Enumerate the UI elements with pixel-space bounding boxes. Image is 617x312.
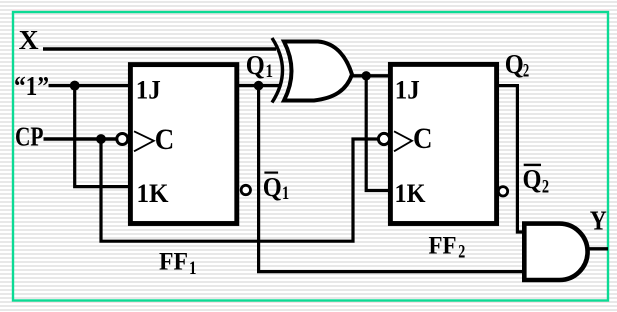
wire X input: [43, 47, 276, 50]
svg-text:Q: Q: [263, 171, 282, 202]
svg-text:Q: Q: [246, 49, 265, 80]
svg-text:C: C: [413, 123, 433, 155]
svg-text:1: 1: [266, 61, 274, 82]
junction dot node XOR output: [362, 71, 371, 80]
XOR gate extra input arc: [272, 38, 283, 103]
FF2 clock triangle: [394, 131, 412, 151]
wire XOR output branch down to 1K of FF2: [366, 76, 390, 191]
FF1 clock triangle: [134, 131, 154, 151]
svg-text:1J: 1J: [136, 76, 161, 105]
svg-text:1: 1: [282, 183, 289, 204]
svg-text:Y: Y: [590, 205, 607, 236]
svg-text:Q: Q: [505, 48, 524, 79]
pink ruled line top: [12, 9, 609, 10]
XOR gate body: [284, 42, 352, 101]
flip-flop FF2 box: [390, 64, 496, 223]
FF1 clock bubble: [117, 134, 128, 145]
wire Q2 output down to AND gate upper input: [496, 86, 524, 232]
wire CP branch down and across to C of FF2: [101, 139, 378, 241]
wire Q1 output to XOR input: [237, 84, 280, 87]
wire "1" branch down to 1K of FF1: [75, 86, 131, 187]
wire CP input: [44, 137, 117, 140]
wire "1" to 1J of FF1: [49, 84, 132, 87]
svg-text:1K: 1K: [137, 179, 170, 208]
pink ruled line bottom: [12, 301, 609, 302]
svg-text:CP: CP: [15, 121, 44, 152]
svg-text:2: 2: [523, 60, 529, 81]
svg-text:X: X: [19, 24, 39, 55]
junction dot node CP: [96, 134, 106, 144]
svg-text:FF: FF: [429, 233, 457, 260]
FF2 Q-bar output bubble: [498, 187, 507, 196]
svg-text:2: 2: [458, 241, 465, 262]
wire Y output: [586, 247, 608, 250]
svg-text:1K: 1K: [395, 179, 427, 208]
FF1 Q-bar output bubble: [241, 185, 250, 194]
junction dot node Q1: [254, 81, 264, 91]
wire Q1 branch down and across to AND gate lower input: [259, 86, 524, 272]
AND gate body: [524, 224, 587, 280]
svg-text:1: 1: [189, 258, 197, 279]
svg-text:2: 2: [542, 177, 549, 198]
junction dot node "1": [70, 81, 80, 91]
FF2 clock bubble: [378, 133, 389, 144]
svg-text:C: C: [155, 124, 175, 156]
svg-text:FF: FF: [159, 249, 188, 276]
svg-text:“1”: “1”: [14, 70, 49, 101]
svg-text:1J: 1J: [395, 76, 420, 105]
svg-text:Q: Q: [523, 163, 542, 194]
wire XOR output to 1J of FF2: [351, 74, 390, 77]
flip-flop FF1 box: [130, 65, 236, 224]
